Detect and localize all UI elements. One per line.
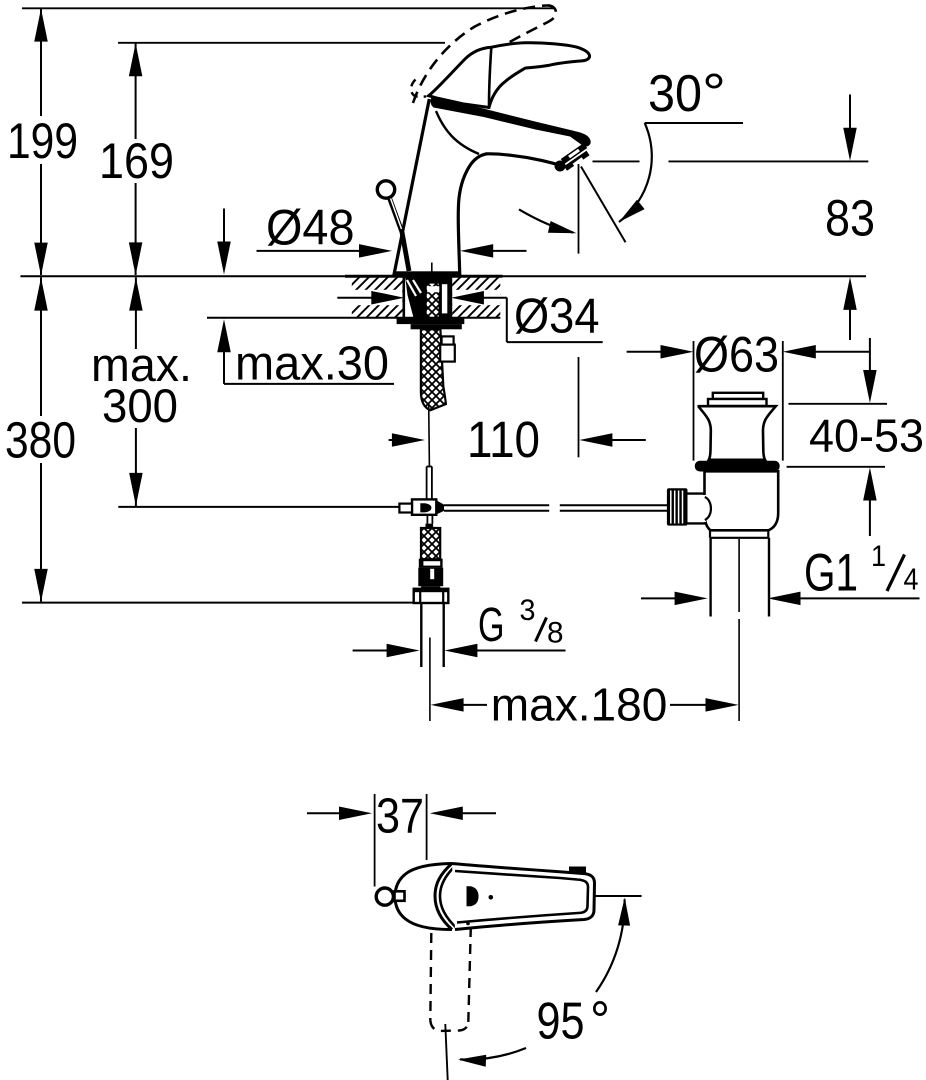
- svg-text:83: 83: [825, 190, 875, 247]
- svg-text:°: °: [590, 991, 610, 1051]
- svg-text:G: G: [478, 599, 505, 652]
- svg-text:°: °: [702, 63, 726, 123]
- svg-text:37: 37: [376, 790, 424, 844]
- svg-text:max.180: max.180: [491, 679, 668, 731]
- svg-text:8: 8: [547, 617, 564, 650]
- svg-text:40-53: 40-53: [809, 410, 924, 462]
- svg-text:95: 95: [537, 993, 585, 1051]
- svg-text:1: 1: [871, 540, 886, 573]
- svg-text:max.30: max.30: [235, 338, 389, 391]
- svg-text:G1: G1: [804, 544, 858, 603]
- svg-text:110: 110: [467, 411, 540, 468]
- svg-text:169: 169: [99, 133, 174, 189]
- svg-text:Ø34: Ø34: [514, 289, 600, 343]
- svg-text:Ø48: Ø48: [266, 199, 355, 255]
- svg-text:300: 300: [102, 379, 178, 432]
- svg-text:4: 4: [904, 562, 919, 597]
- svg-text:380: 380: [5, 411, 76, 468]
- svg-text:3: 3: [520, 594, 536, 627]
- svg-text:Ø63: Ø63: [694, 326, 779, 382]
- svg-text:30: 30: [648, 65, 702, 123]
- svg-text:199: 199: [7, 113, 78, 169]
